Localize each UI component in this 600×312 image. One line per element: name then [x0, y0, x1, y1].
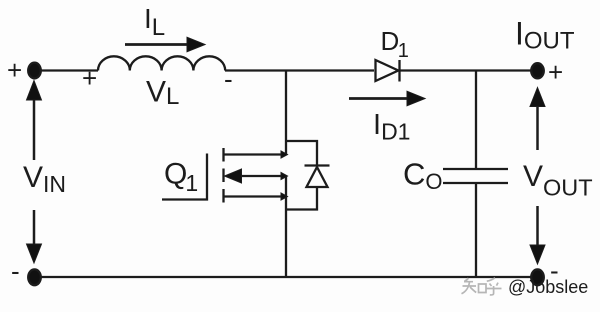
- transistor Q1 drain lead: [225, 151, 288, 158]
- svg-text:-: -: [224, 64, 233, 94]
- VIN polarity arrow up (top left): [27, 81, 42, 161]
- wire bottom rail: [34, 276, 538, 278]
- svg-text:@Jobslee: @Jobslee: [508, 277, 588, 297]
- svg-text:CO: CO: [403, 157, 443, 195]
- svg-text:IL: IL: [144, 3, 165, 41]
- watermark 知 (drawn paths): [462, 278, 487, 294]
- node: input + terminal dot: [28, 63, 41, 79]
- svg-text:ID1: ID1: [373, 109, 410, 145]
- svg-text:-: -: [11, 256, 20, 286]
- svg-text:+: +: [82, 63, 97, 93]
- wire top rail left: input dot to inductor: [34, 69, 98, 71]
- transistor Q1 source lead: [225, 193, 288, 200]
- capacitor CO plates: [443, 169, 508, 183]
- svg-text:D1: D1: [381, 26, 409, 62]
- watermark 乎 (drawn paths): [486, 278, 502, 295]
- wire: body diode branch top: [286, 141, 317, 165]
- wire: capacitor branch top: [475, 71, 477, 170]
- svg-text:Q1: Q1: [164, 158, 198, 197]
- wire: body diode branch bottom: [286, 187, 317, 210]
- ID1 current arrow: [349, 91, 425, 106]
- transistor Q1 body lead with arrow: [225, 169, 288, 183]
- wire: source vertical to bottom rail: [285, 176, 287, 277]
- node: output - terminal dot: [531, 269, 544, 285]
- node: output + terminal dot: [531, 63, 544, 78]
- diode D1: [376, 60, 400, 82]
- inductor L (4 humps): [98, 56, 225, 70]
- VOUT polarity arrow down (bottom right): [530, 206, 545, 264]
- svg-text:VL: VL: [146, 76, 179, 111]
- svg-text:VIN: VIN: [23, 161, 66, 197]
- node: input - terminal dot: [28, 269, 41, 285]
- wire top rail: inductor to diode D1 anode: [225, 69, 374, 71]
- wire: capacitor branch bottom: [475, 183, 477, 277]
- IL current arrow: [125, 37, 205, 52]
- svg-text:+: +: [7, 55, 22, 85]
- transistor Q1 gate lead bracket: [162, 154, 207, 200]
- svg-text:VOUT: VOUT: [523, 160, 593, 201]
- svg-text:+: +: [548, 57, 563, 87]
- wire: switch node vertical (drain): [285, 71, 287, 156]
- svg-text:IOUT: IOUT: [515, 16, 575, 55]
- transistor Q1 channel (dashed): [222, 148, 224, 203]
- VIN polarity arrow down (bottom left): [27, 210, 42, 263]
- IOUT arrow up (top right): [530, 88, 545, 151]
- wire top rail: diode cathode to output dot: [400, 69, 539, 71]
- body diode of Q1: [305, 166, 330, 188]
